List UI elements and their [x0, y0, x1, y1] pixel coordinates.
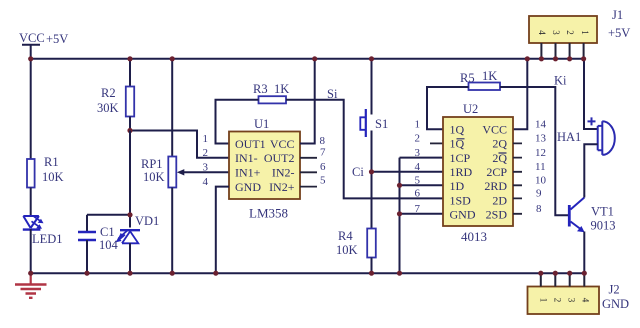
- svg-text:7: 7: [415, 203, 421, 215]
- svg-text:VCC: VCC: [482, 122, 507, 136]
- IC U2 4013: [443, 102, 513, 244]
- resistor R5: [460, 69, 500, 90]
- pin U2 right stubs 13-8: [513, 143, 522, 213]
- U1 pin numbers right: [320, 135, 327, 187]
- svg-text:10K: 10K: [336, 243, 358, 257]
- wire left column top: [30, 59, 32, 159]
- wire R5 left to U2 pin1: [427, 87, 469, 129]
- svg-text:VT1: VT1: [591, 205, 614, 219]
- transistor VT1 9013: [569, 198, 615, 233]
- svg-text:8: 8: [320, 135, 326, 147]
- wire VCC top rail: [31, 58, 584, 60]
- svg-text:VCC: VCC: [19, 31, 45, 45]
- switch S1 pushbutton: [360, 109, 388, 137]
- svg-text:U1: U1: [254, 117, 269, 131]
- svg-text:J2: J2: [609, 283, 620, 297]
- svg-text:13: 13: [535, 133, 547, 145]
- svg-text:VD1: VD1: [135, 214, 159, 228]
- svg-text:104: 104: [99, 238, 119, 252]
- svg-text:Ki: Ki: [554, 74, 567, 88]
- wire R2 junction down to VD1: [129, 131, 131, 228]
- svg-text:4: 4: [203, 176, 209, 188]
- svg-text:4013: 4013: [461, 229, 487, 244]
- svg-text:12: 12: [535, 147, 546, 159]
- wire VT1 emitter to ground rail: [583, 232, 585, 274]
- svg-text:IN1-: IN1-: [235, 151, 258, 165]
- svg-text:+5V: +5V: [608, 26, 630, 40]
- svg-text:IN2+: IN2+: [269, 180, 295, 194]
- ground symbol: [15, 273, 47, 298]
- wire U2 gnd column: [400, 158, 444, 274]
- svg-text:GND: GND: [602, 297, 629, 311]
- wire RP1 wiper to U1 pin3: [183, 171, 229, 173]
- svg-text:4: 4: [415, 161, 421, 173]
- op-amp U1 LM358: [229, 117, 300, 221]
- svg-text:2: 2: [415, 133, 421, 145]
- svg-text:4: 4: [537, 30, 547, 35]
- resistor R4: [336, 229, 376, 258]
- wire ground bottom rail: [31, 272, 585, 274]
- svg-text:9013: 9013: [591, 219, 616, 233]
- wire R2 column top: [129, 59, 131, 87]
- svg-text:VCC: VCC: [270, 137, 295, 151]
- U2 pin numbers right: [535, 119, 547, 216]
- svg-text:10K: 10K: [42, 170, 64, 184]
- wire C1 top tee: [87, 214, 130, 216]
- svg-text:LM358: LM358: [249, 206, 288, 221]
- svg-text:3: 3: [415, 147, 421, 159]
- svg-text:8: 8: [536, 203, 542, 215]
- svg-text:Ci: Ci: [352, 165, 364, 179]
- diode VD1: [116, 214, 159, 243]
- svg-text:14: 14: [535, 119, 547, 131]
- svg-text:R1: R1: [44, 155, 59, 169]
- node bottom rail junctions: [28, 271, 587, 276]
- node top rail junctions: [28, 56, 586, 61]
- connector J1: [529, 8, 630, 43]
- svg-text:11: 11: [535, 161, 546, 173]
- resistor R2: [97, 86, 134, 117]
- wire U2 pin7 tee: [400, 213, 444, 215]
- pin U1 pin6 stub: [300, 171, 317, 173]
- svg-text:LED1: LED1: [32, 232, 63, 246]
- node U2 pin5 junction: [397, 183, 402, 188]
- wire VD1 to ground rail: [129, 243, 131, 273]
- svg-text:1CP: 1CP: [450, 151, 471, 165]
- wire RP1 column top: [171, 59, 173, 157]
- svg-text:6: 6: [320, 161, 326, 173]
- svg-text:OUT1: OUT1: [235, 137, 266, 151]
- wire R3 left to U1 pin1: [216, 100, 259, 144]
- wire VCC to U2 pin14: [513, 59, 527, 129]
- potentiometer RP1: [141, 157, 176, 188]
- wire LED1 to ground rail: [30, 229, 32, 273]
- svg-text:2CP: 2CP: [486, 165, 507, 179]
- pin J1 pin stubs: [541, 43, 583, 59]
- svg-text:1K: 1K: [482, 69, 497, 83]
- svg-text:1RD: 1RD: [450, 165, 473, 179]
- svg-text:GND: GND: [450, 208, 476, 222]
- pin U1 pin7 stub: [300, 157, 317, 159]
- svg-text:S1: S1: [375, 117, 388, 131]
- wire S1 column top: [371, 59, 373, 115]
- svg-text:2Q: 2Q: [492, 137, 507, 151]
- svg-text:5: 5: [320, 175, 326, 187]
- svg-text:10K: 10K: [143, 170, 165, 184]
- U2 pin numbers left: [415, 119, 421, 216]
- wire R1 to LED1: [30, 188, 32, 217]
- svg-text:4: 4: [580, 298, 590, 303]
- wire R2 bottom to junction: [129, 117, 131, 131]
- wire VCC rail corner to HA1 plus: [584, 59, 598, 129]
- svg-text:Si: Si: [327, 87, 338, 101]
- pin J2 pin stubs: [541, 273, 585, 286]
- capacitor C1: [78, 215, 119, 273]
- svg-text:IN2-: IN2-: [272, 166, 295, 180]
- svg-text:2: 2: [203, 147, 209, 159]
- svg-text:5: 5: [415, 175, 421, 187]
- svg-text:R3: R3: [253, 82, 268, 96]
- connector J2: [528, 283, 630, 315]
- svg-text:6: 6: [415, 188, 421, 200]
- wire junction to U1 pin2: [130, 131, 229, 158]
- wire VT1 collector up: [583, 195, 585, 198]
- svg-text:2SD: 2SD: [486, 208, 508, 222]
- svg-text:1: 1: [538, 298, 548, 303]
- resistor R3: [253, 82, 289, 103]
- svg-text:R5: R5: [460, 71, 475, 85]
- svg-text:1: 1: [580, 30, 590, 35]
- wire RP1 bottom to ground rail: [171, 188, 173, 274]
- svg-text:J1: J1: [612, 8, 623, 22]
- wire U1 pin8 to VCC rail: [300, 59, 315, 144]
- svg-text:C1: C1: [100, 225, 115, 239]
- svg-text:R4: R4: [338, 229, 353, 243]
- svg-text:HA1: HA1: [557, 130, 581, 144]
- svg-text:7: 7: [320, 147, 326, 159]
- wire U2 pin5 tee: [400, 184, 444, 186]
- svg-text:10: 10: [535, 175, 547, 187]
- svg-text:1: 1: [203, 133, 209, 145]
- svg-text:R2: R2: [101, 86, 116, 100]
- svg-text:9: 9: [536, 188, 542, 200]
- svg-text:3: 3: [551, 30, 561, 35]
- svg-text:1SD: 1SD: [450, 193, 472, 207]
- svg-text:2: 2: [565, 30, 575, 35]
- wire U1 pin4 to ground rail: [216, 187, 229, 274]
- svg-text:IN1+: IN1+: [235, 166, 261, 180]
- svg-text:1K: 1K: [274, 82, 289, 96]
- node U2 pin7 junction: [397, 211, 402, 216]
- wire Si net R3 right to U2 pin6: [286, 100, 443, 199]
- svg-text:3: 3: [566, 298, 576, 303]
- svg-text:1: 1: [415, 119, 421, 131]
- node C1 tee junction: [127, 212, 132, 217]
- svg-text:2: 2: [552, 298, 562, 303]
- node R2 bottom junction: [127, 128, 132, 133]
- power symbol VCC: [19, 31, 68, 59]
- speaker HA1: [557, 117, 615, 154]
- pin U2 pin2 stub: [430, 142, 443, 144]
- svg-text:30K: 30K: [97, 101, 119, 115]
- wire HA1 minus to VT1 collector: [584, 144, 597, 195]
- svg-text:1Q: 1Q: [450, 122, 465, 136]
- wire Ki net R5 right to VT1 base: [500, 87, 569, 215]
- U1 pin numbers left: [203, 133, 209, 188]
- pin U1 pin5 stub: [300, 186, 317, 188]
- svg-text:1D: 1D: [450, 179, 465, 193]
- svg-text:U2: U2: [463, 102, 478, 116]
- svg-text:RP1: RP1: [141, 157, 163, 171]
- wire Ci net to U2 pin4: [372, 171, 444, 173]
- svg-text:2RD: 2RD: [484, 179, 507, 193]
- node Ci junction: [369, 169, 374, 174]
- wire R4 bottom to ground rail: [371, 258, 373, 274]
- wire S1 bottom to R4: [371, 131, 373, 229]
- svg-text:OUT2: OUT2: [264, 151, 295, 165]
- LED LED1: [23, 216, 63, 246]
- svg-text:2D: 2D: [492, 193, 507, 207]
- resistor R1: [27, 155, 64, 188]
- svg-text:GND: GND: [235, 180, 261, 194]
- svg-text:+5V: +5V: [46, 32, 68, 46]
- svg-text:3: 3: [203, 162, 209, 174]
